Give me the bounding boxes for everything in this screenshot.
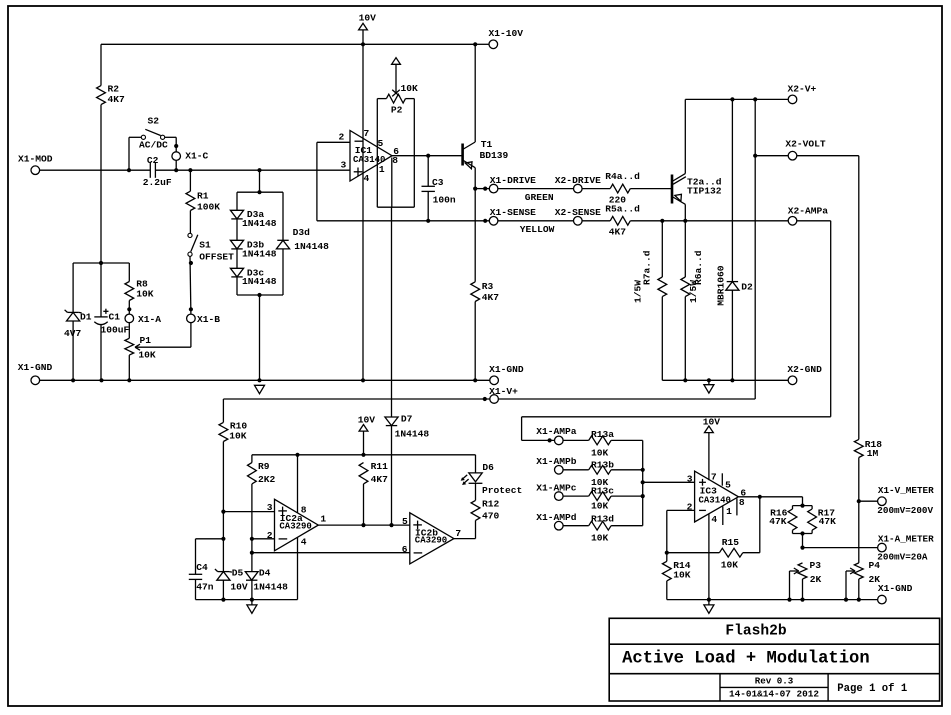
- svg-text:R13d: R13d: [591, 513, 614, 524]
- svg-text:7: 7: [711, 471, 717, 482]
- node junction D2 top: [730, 97, 734, 101]
- svg-text:2K2: 2K2: [258, 474, 276, 485]
- wire X1-GND bus: [40, 379, 490, 381]
- svg-text:R13b: R13b: [591, 460, 614, 471]
- wire IC1 output row: [392, 155, 463, 157]
- node junction X1-C stub: [174, 144, 178, 148]
- node junction IC3 pin3 branch: [641, 480, 645, 484]
- potentiometer P4 2K: [854, 563, 863, 579]
- wire IC1 supply / pin4 vertical: [362, 44, 364, 380]
- resistor R7a..d 1/5W: [661, 221, 663, 277]
- svg-text:6: 6: [402, 544, 408, 555]
- svg-text:C1: C1: [109, 312, 121, 323]
- node junction V+ vertical top: [753, 97, 757, 101]
- svg-text:47K: 47K: [819, 516, 837, 527]
- svg-text:X1-GND: X1-GND: [18, 362, 53, 373]
- wire lower-right gnd bus: [667, 599, 878, 601]
- node junction D3 feed: [257, 168, 261, 172]
- svg-text:D1: D1: [80, 312, 92, 323]
- resistor R16 47K: [793, 505, 813, 507]
- wire IC1 offset null connector: [377, 206, 414, 208]
- svg-text:X1-GND: X1-GND: [878, 583, 913, 594]
- svg-text:X1-A: X1-A: [138, 314, 161, 325]
- wire X2-V+ bus: [685, 98, 788, 100]
- node junction D5 gnd: [221, 598, 225, 602]
- diode D1 4V7 zener: [72, 263, 74, 312]
- wire drive stub: [475, 188, 489, 190]
- svg-text:Flash2b: Flash2b: [725, 624, 787, 640]
- led D6 Protect: [475, 455, 477, 473]
- svg-text:R5a..d: R5a..d: [605, 204, 640, 215]
- resistor R1 100K: [189, 170, 191, 191]
- diode D3c 1N4148: [236, 249, 238, 268]
- op-amp IC2b CA3290: [410, 513, 454, 564]
- svg-text:X1-AMPd: X1-AMPd: [536, 512, 577, 523]
- svg-text:47n: 47n: [196, 582, 214, 593]
- wire S1 to X1-B: [189, 256, 192, 314]
- node junction X2 ground symbol: [707, 378, 711, 382]
- svg-text:GREEN: GREEN: [525, 192, 554, 203]
- svg-text:3: 3: [687, 474, 693, 485]
- svg-text:X1-V_METER: X1-V_METER: [878, 485, 934, 496]
- wire IC3 output row: [738, 496, 802, 498]
- svg-text:C3: C3: [432, 177, 444, 188]
- node junction P4 gnd: [857, 598, 861, 602]
- diode D3b 1N4148: [236, 219, 238, 240]
- svg-text:1N4148: 1N4148: [294, 241, 329, 252]
- node junction C3 top: [426, 154, 430, 158]
- wire 10V top bus: [101, 43, 475, 45]
- wire IC1 pin1 lead: [391, 158, 393, 208]
- wire X1-V+ row: [223, 398, 489, 400]
- svg-text:P1: P1: [140, 335, 152, 346]
- svg-text:S2: S2: [148, 116, 160, 127]
- svg-text:100n: 100n: [433, 195, 456, 206]
- svg-text:4: 4: [711, 514, 717, 525]
- svg-text:X2-VOLT: X2-VOLT: [785, 139, 826, 150]
- power arrow P2 wiper: [392, 58, 401, 65]
- svg-text:10K: 10K: [591, 501, 609, 512]
- capacitor C3 100n: [427, 156, 429, 187]
- svg-text:10K: 10K: [673, 569, 691, 580]
- node junction S1 lower stub: [189, 261, 193, 265]
- node junction R13c: [641, 494, 645, 498]
- svg-text:3: 3: [341, 159, 347, 170]
- svg-text:1M: 1M: [867, 448, 879, 459]
- node junction S2 left branch: [127, 168, 131, 172]
- node junction D1 gnd: [71, 378, 75, 382]
- svg-text:P2: P2: [391, 104, 403, 115]
- node junction R16R17 bottom: [800, 531, 804, 535]
- svg-text:C4: C4: [196, 562, 208, 573]
- node junction D3 gnd / ground symbol: [257, 378, 261, 382]
- pin 8 lead IC3: [736, 498, 738, 515]
- svg-text:8: 8: [301, 504, 307, 515]
- svg-text:BD139: BD139: [480, 150, 509, 161]
- svg-text:1N4148: 1N4148: [242, 218, 277, 229]
- svg-text:4K7: 4K7: [371, 474, 389, 485]
- wire X2-AMPa feed: [797, 220, 831, 222]
- resistor R11 4K7: [359, 463, 368, 484]
- svg-text:47K: 47K: [769, 516, 787, 527]
- diode D2 MBR1060: [731, 99, 733, 281]
- svg-text:X1-C: X1-C: [185, 151, 208, 162]
- wire P2 right lead: [413, 99, 415, 208]
- svg-text:1N4148: 1N4148: [242, 276, 277, 287]
- resistor R4a..d 220: [582, 188, 610, 190]
- node junction R1 branch: [188, 168, 192, 172]
- wire X1-MOD to IC1 pin3: [40, 169, 151, 171]
- wire sense row left: [317, 220, 489, 222]
- svg-text:10V: 10V: [230, 582, 248, 593]
- node junction P4 wiper gnd: [844, 598, 848, 602]
- svg-text:D7: D7: [401, 413, 413, 424]
- svg-text:4: 4: [364, 173, 370, 184]
- node junction R15 feedback: [758, 495, 762, 499]
- svg-text:1/5W: 1/5W: [633, 280, 644, 303]
- wire IC1 pin2 feedback: [317, 141, 350, 143]
- switch S2 AC/DC: [128, 137, 130, 170]
- pin 1 lead IC3: [722, 506, 724, 525]
- resistor R13a 10K: [563, 439, 589, 441]
- svg-text:D5: D5: [232, 567, 244, 578]
- svg-text:10K: 10K: [136, 289, 154, 300]
- svg-text:R7a..d: R7a..d: [641, 250, 652, 285]
- wire P1 wiper to X1-B: [136, 346, 191, 348]
- node junction P3 gnd: [800, 598, 804, 602]
- svg-text:C2: C2: [147, 155, 159, 166]
- svg-text:Page 1 of 1: Page 1 of 1: [837, 683, 907, 695]
- wire lower gnd rail: [196, 599, 298, 601]
- node junction P3 wiper gnd: [787, 598, 791, 602]
- node junction C1/R2: [99, 261, 103, 265]
- wire X1-DRIVE to X2-DRIVE: [498, 188, 574, 190]
- node junction X1-A stub: [127, 307, 131, 311]
- wire IC2a output row: [318, 524, 410, 526]
- svg-text:D3d: D3d: [293, 227, 311, 238]
- node junction IC2a pin3 / R10: [221, 510, 225, 514]
- svg-text:R11: R11: [371, 461, 389, 472]
- diode D3a 1N4148: [236, 192, 238, 210]
- connector X1-10V: [475, 43, 489, 45]
- node junction R18 / V_METER: [857, 499, 861, 503]
- svg-text:4V7: 4V7: [64, 328, 82, 339]
- svg-text:S1: S1: [199, 239, 211, 250]
- capacitor C1 100uF: [100, 263, 102, 317]
- diode D4 1N4148: [245, 572, 258, 581]
- wire D3 network bottom rail: [237, 294, 283, 296]
- svg-text:2: 2: [339, 131, 345, 142]
- node junction D2 gnd: [730, 378, 734, 382]
- node junction IC1 pin4 gnd: [361, 378, 365, 382]
- wire X1-AMPa feed: [522, 439, 555, 441]
- resistor R18 1M: [858, 156, 860, 440]
- node junction P1 gnd: [127, 378, 131, 382]
- svg-text:X1-MOD: X1-MOD: [18, 154, 53, 165]
- title block frame: [609, 618, 939, 701]
- node junction top bus / T1 collector: [473, 42, 477, 46]
- node junction D7 bottom: [389, 523, 393, 527]
- svg-text:R4a..d: R4a..d: [605, 171, 640, 182]
- svg-text:TIP132: TIP132: [687, 186, 722, 197]
- svg-text:10V: 10V: [358, 414, 376, 425]
- svg-text:CA3140: CA3140: [699, 496, 731, 506]
- svg-text:X1-AMPa: X1-AMPa: [536, 426, 577, 437]
- svg-text:10K: 10K: [138, 350, 156, 361]
- node junction X1-C branch: [174, 168, 178, 172]
- wire IC3 pin2: [667, 509, 695, 511]
- svg-text:X1-GND: X1-GND: [489, 364, 524, 375]
- node junction R13b: [641, 468, 645, 472]
- resistor R17 47K: [811, 506, 813, 509]
- pin 5 lead IC3: [721, 473, 723, 485]
- wire feedback top row: [252, 454, 476, 456]
- svg-text:X1-AMPb: X1-AMPb: [536, 456, 577, 467]
- svg-text:1: 1: [320, 514, 326, 525]
- wire X1-A_METER row: [803, 547, 878, 549]
- node junction C4 / R10 line: [221, 537, 225, 541]
- wire P3 wiper: [790, 570, 798, 572]
- wire X1-SENSE to X2-SENSE: [498, 220, 574, 222]
- diode D3d 1N4148: [282, 192, 284, 240]
- svg-text:1: 1: [379, 164, 385, 175]
- wire IC2b output: [454, 538, 476, 540]
- resistor R13d 10K: [563, 525, 589, 527]
- node junction C1 gnd: [99, 378, 103, 382]
- wire IC2b pin6 row: [252, 552, 410, 554]
- svg-text:T1: T1: [481, 139, 493, 150]
- node junction D4 gnd / ground symbol: [250, 598, 254, 602]
- svg-text:2.2uF: 2.2uF: [143, 177, 172, 188]
- svg-text:8: 8: [392, 155, 398, 166]
- node junction pin6 branch: [250, 551, 254, 555]
- node junction T1 emitter / drive: [473, 187, 477, 191]
- transistor T2a..d TIP132: [671, 175, 674, 204]
- svg-text:CA3290: CA3290: [279, 521, 311, 531]
- op-amp IC2a CA3290: [275, 499, 319, 551]
- resistor R12 470: [475, 483, 477, 500]
- node junction T2 emitter / R6 top: [683, 219, 687, 223]
- resistor R14 10K: [666, 553, 668, 562]
- svg-text:X1-10V: X1-10V: [489, 28, 524, 39]
- svg-text:4K7: 4K7: [108, 94, 126, 105]
- svg-text:2K: 2K: [810, 574, 822, 585]
- svg-text:R3: R3: [482, 281, 494, 292]
- svg-text:X2-AMPa: X2-AMPa: [788, 205, 829, 216]
- svg-text:P3: P3: [810, 560, 822, 571]
- connector X1-C: [172, 152, 181, 161]
- op-amp IC3 CA3140: [695, 471, 739, 522]
- svg-text:100K: 100K: [197, 201, 220, 212]
- svg-text:14-01&14-07 2012: 14-01&14-07 2012: [729, 688, 819, 699]
- wire C4 branch: [196, 538, 224, 540]
- connector X1-B: [187, 314, 196, 323]
- resistor R5a..d 4K7: [582, 220, 610, 222]
- diode D5 10V zener: [218, 571, 229, 573]
- svg-text:D6: D6: [482, 462, 494, 473]
- node junction R7 top: [660, 219, 664, 223]
- svg-text:X2-GND: X2-GND: [787, 364, 822, 375]
- node junction VOLT / V+ vertical: [753, 154, 757, 158]
- svg-text:X1-AMPc: X1-AMPc: [536, 482, 577, 493]
- svg-text:D2: D2: [741, 281, 753, 292]
- svg-text:4: 4: [301, 536, 307, 547]
- resistor R9 2K2: [251, 455, 253, 463]
- resistor R15 10K: [667, 552, 720, 554]
- node junction X1-SENSE stub: [483, 219, 487, 223]
- svg-text:10K: 10K: [591, 532, 609, 543]
- svg-text:5: 5: [402, 516, 408, 527]
- node junction X1-DRIVE stub: [483, 187, 487, 191]
- wire X2-GND bus: [662, 379, 788, 381]
- svg-text:1/5W: 1/5W: [688, 280, 699, 303]
- svg-text:3: 3: [267, 502, 273, 513]
- op-amp IC1 CA3140: [350, 131, 392, 182]
- svg-text:100uF: 100uF: [101, 325, 130, 336]
- potentiometer P1 10K: [125, 338, 134, 355]
- svg-text:1N4148: 1N4148: [242, 248, 277, 259]
- capacitor C2 2.2uF: [149, 162, 151, 178]
- svg-text:X1-DRIVE: X1-DRIVE: [490, 175, 536, 186]
- potentiometer P3 2K: [798, 563, 807, 579]
- node junction C3 bottom: [426, 219, 430, 223]
- svg-text:7: 7: [364, 128, 370, 139]
- svg-text:MBR1060: MBR1060: [715, 265, 726, 306]
- node junction R16R17 / A_METER: [800, 546, 804, 550]
- svg-text:R9: R9: [258, 461, 270, 472]
- svg-text:10K: 10K: [591, 448, 609, 459]
- svg-text:4K7: 4K7: [609, 226, 627, 237]
- wire S2 right to X1-C: [175, 137, 177, 152]
- svg-text:1N4148: 1N4148: [253, 582, 288, 593]
- wire X2-VOLT row: [755, 155, 788, 157]
- diode D7 1N4148: [391, 207, 393, 417]
- svg-text:X1-B: X1-B: [197, 314, 220, 325]
- resistor R8 10K: [128, 263, 130, 282]
- transistor T1 BD139: [461, 144, 464, 166]
- node junction R14/R15/pin2: [665, 551, 669, 555]
- svg-text:X1-SENSE: X1-SENSE: [490, 207, 536, 218]
- svg-text:R1: R1: [197, 191, 209, 202]
- node junction IC2a pin8 branch: [295, 453, 299, 457]
- svg-text:10K: 10K: [229, 430, 247, 441]
- svg-text:CA3290: CA3290: [415, 536, 447, 546]
- svg-text:10K: 10K: [401, 83, 419, 94]
- resistor R2 4K7: [100, 44, 102, 85]
- pin 4 lead IC3: [708, 514, 710, 600]
- svg-text:R13a: R13a: [591, 429, 614, 440]
- wire R13 summing bus: [642, 440, 644, 525]
- node junction X1-B stub: [189, 307, 193, 311]
- node junction R3 gnd: [473, 378, 477, 382]
- svg-text:2: 2: [267, 530, 273, 541]
- node junction R11 top: [361, 453, 365, 457]
- svg-text:X1-A_METER: X1-A_METER: [878, 534, 934, 545]
- svg-text:R12: R12: [482, 499, 500, 510]
- svg-text:10V: 10V: [359, 13, 377, 24]
- svg-text:R15: R15: [722, 537, 740, 548]
- svg-text:AC/DC: AC/DC: [139, 140, 168, 151]
- node junction X1-V+ stub: [483, 397, 487, 401]
- svg-text:10V: 10V: [703, 416, 721, 427]
- svg-text:OFFSET: OFFSET: [199, 251, 234, 262]
- svg-text:1: 1: [726, 506, 732, 517]
- svg-text:D4: D4: [259, 567, 271, 578]
- node junction X1-AMPa stub: [548, 438, 552, 442]
- svg-text:X2-V+: X2-V+: [788, 84, 817, 95]
- pin 8 lead IC2a: [297, 455, 299, 513]
- wire IC1 pin5 lead: [376, 99, 378, 208]
- connector X1-A: [125, 314, 134, 323]
- wire X1-V_METER row: [859, 500, 878, 502]
- svg-text:Rev 0.3: Rev 0.3: [755, 676, 794, 687]
- pin 4 lead IC2a: [297, 538, 299, 600]
- svg-text:4K7: 4K7: [482, 292, 500, 303]
- svg-text:5: 5: [378, 138, 384, 149]
- switch S1 OFFSET: [188, 233, 192, 237]
- svg-text:YELLOW: YELLOW: [520, 224, 555, 235]
- potentiometer P2 10K: [377, 98, 386, 100]
- node junction R11 bottom: [361, 523, 365, 527]
- svg-text:7: 7: [455, 528, 461, 539]
- resistor R6a..d 1/5W: [684, 221, 686, 277]
- resistor R3 4K7: [471, 282, 480, 302]
- wire IC3 pin3: [643, 481, 695, 483]
- resistor R13b 10K: [563, 469, 589, 471]
- wire reference node: [73, 262, 129, 264]
- wire IC2a pin2: [252, 538, 275, 540]
- wire D3 network top rail: [259, 170, 261, 192]
- node junction R6 gnd: [683, 378, 687, 382]
- svg-text:R6a..d: R6a..d: [693, 250, 704, 285]
- wire V+ vertical to X1-V+: [754, 99, 756, 399]
- svg-text:8: 8: [739, 497, 745, 508]
- wire output to R16R17: [802, 497, 804, 506]
- svg-text:1N4148: 1N4148: [395, 429, 430, 440]
- wire IC2a pin3: [223, 511, 274, 513]
- node junction IC3 pin4 gnd / ground symbol: [707, 598, 711, 602]
- capacitor C4 47n: [195, 539, 197, 575]
- svg-text:200mV=200V: 200mV=200V: [877, 505, 933, 516]
- svg-text:5: 5: [725, 479, 731, 490]
- resistor R10 10K: [222, 399, 224, 422]
- svg-text:P4: P4: [869, 560, 881, 571]
- svg-text:200mV=20A: 200mV=20A: [877, 551, 928, 562]
- resistor R13c 10K: [563, 495, 589, 497]
- svg-text:Protect: Protect: [482, 485, 522, 496]
- svg-text:Active Load + Modulation: Active Load + Modulation: [622, 649, 870, 668]
- wire P4 wiper: [846, 570, 854, 572]
- svg-text:10K: 10K: [721, 560, 739, 571]
- node junction IC2a pin2 / R9: [250, 537, 254, 541]
- wire T1 emitter to R3: [474, 189, 476, 282]
- node junction 10V bus / IC1 pin7: [361, 42, 365, 46]
- svg-text:R13c: R13c: [591, 486, 614, 497]
- svg-text:470: 470: [482, 511, 500, 522]
